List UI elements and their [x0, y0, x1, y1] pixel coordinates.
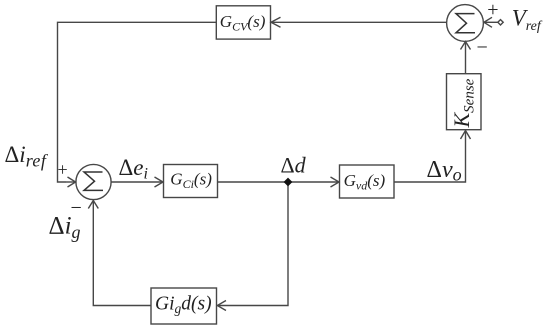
- block Gigd: [151, 288, 217, 324]
- terminal Vref diamond: [498, 20, 503, 25]
- svg-text:Vref: Vref: [512, 6, 543, 34]
- wire: GCi to node D and to block Gvd: [218, 177, 340, 187]
- wire: GCV output left then down to sum U1: [58, 22, 217, 182]
- wire: top feedback, sum U2 to block GCV: [271, 17, 447, 27]
- wire: Gigd output left then up into sum U1 bottom: [88, 201, 151, 306]
- node D junction dot: [284, 178, 293, 187]
- svg-text:GCV(s): GCV(s): [220, 12, 266, 34]
- block GCV: [216, 6, 270, 39]
- wire: KSense up into sum U2: [461, 42, 471, 74]
- svg-text:Δiref: Δiref: [5, 142, 49, 171]
- label sigma in U1: [84, 172, 103, 190]
- summer U2: [447, 5, 484, 42]
- wire: node D down and left into block Gigd: [217, 182, 288, 311]
- wire: Gvd output right then up to KSense: [394, 131, 471, 183]
- svg-text:Δd: Δd: [281, 153, 307, 178]
- block Gvd: [340, 165, 395, 198]
- wire: arrow into sum U1 left: [66, 177, 76, 187]
- wire: sum U1 to block GCi: [111, 177, 163, 187]
- svg-text:−: −: [71, 197, 82, 219]
- svg-text:+: +: [58, 160, 68, 180]
- svg-text:+: +: [487, 0, 498, 21]
- svg-text:Gvd(s): Gvd(s): [344, 171, 386, 193]
- svg-text:GCi(s): GCi(s): [170, 170, 212, 192]
- svg-text:Δvo: Δvo: [427, 157, 462, 185]
- summer U1: [76, 164, 111, 199]
- wire: Vref input into sum U2: [484, 17, 498, 27]
- block KSense: [447, 74, 482, 130]
- svg-text:Gigd(s): Gigd(s): [155, 294, 212, 317]
- svg-text:−: −: [477, 37, 488, 59]
- block GCi: [164, 165, 218, 198]
- label sigma in U2: [456, 14, 475, 33]
- svg-text:Δei: Δei: [119, 155, 148, 183]
- svg-text:KSense: KSense: [449, 78, 478, 128]
